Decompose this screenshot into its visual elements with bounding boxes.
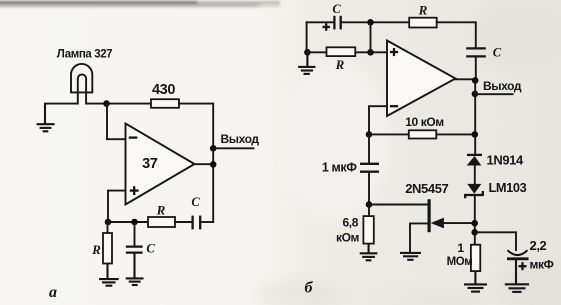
op-amp U1 minus marker [129, 136, 138, 138]
op-amp U2 minus marker [390, 105, 398, 107]
svg-text:мкФ: мкФ [530, 258, 554, 272]
ground GND-B4 (under 1 МОм) [464, 271, 487, 292]
wire: C to right vertical [200, 221, 213, 223]
op-amp U2 triangle [387, 41, 456, 117]
wire: Выход lead [213, 147, 253, 149]
wire: inverting input left and down [369, 106, 387, 134]
wire: node B down to R vertical [107, 222, 109, 233]
ground GND-B5 (under 2,2 мкФ) [505, 259, 529, 292]
resistor 1 МОм body [471, 245, 480, 271]
resistor R top body [409, 18, 437, 28]
wire: 1 мкФ down to node I [368, 172, 370, 205]
svg-text:Лампа 327: Лампа 327 [57, 48, 112, 60]
wire: top-left horizontal to lamp [45, 103, 78, 105]
node VYH-B [472, 91, 479, 98]
node C (junction dot bottom mid) [131, 219, 138, 226]
wire: output vertical down to diodes [474, 80, 476, 154]
diode VD1 1N914 [467, 155, 482, 166]
svg-text:C: C [493, 46, 502, 60]
capacitor C right plates [466, 48, 486, 56]
ground GND-A1 (lamp) [37, 104, 55, 132]
wire: R left to op-amp plus input [355, 51, 387, 53]
wire: node I down to 6,8 кОм [368, 205, 370, 217]
wire: node C down to C vertical [134, 222, 136, 246]
ground GND-B1 [298, 52, 315, 74]
resistor 10 кОм body [409, 130, 437, 138]
resistor 430 body [151, 99, 179, 108]
node I (gate junction) [366, 201, 373, 208]
svg-text:C: C [191, 195, 200, 209]
node D (top junction) [367, 19, 374, 26]
wire: node K right to 2,2 мкФ [475, 232, 516, 250]
wire: R top to right corner down [437, 22, 476, 48]
node F (junction under D) [367, 49, 374, 56]
transistor Q1 gate arrow [431, 218, 444, 229]
wire: lamp to node A [86, 103, 151, 105]
svg-text:R: R [335, 57, 345, 72]
svg-text:б: б [305, 280, 314, 297]
ground GND-A3 (under C) [126, 253, 144, 285]
svg-text:37: 37 [142, 156, 158, 172]
capacitor C vertical plates [126, 247, 143, 253]
wire: 430 to right vertical, corner down [179, 104, 213, 222]
svg-text:1N914: 1N914 [487, 152, 524, 167]
svg-text:R: R [418, 3, 428, 18]
ground GND-B3 (under transistor) [400, 253, 421, 260]
plus sign of 2,2 мкФ [519, 262, 527, 270]
wire: C to R top resistor [341, 21, 410, 23]
node OUT-B [472, 77, 479, 84]
node B (junction dot bottom left) [105, 219, 112, 226]
svg-text:C: C [332, 2, 341, 16]
svg-text:C: C [146, 242, 155, 256]
wire: node A down to inverting input [107, 104, 126, 140]
wire: node K down to 1 МОм [474, 232, 476, 244]
op-amp U1 triangle [126, 124, 195, 205]
capacitor 2,2 мкФ straight plate [507, 257, 529, 260]
op-amp U1 plus marker [130, 186, 139, 195]
wire: left vertical from top rail [306, 22, 308, 52]
op-amp U2 plus marker [390, 48, 398, 56]
svg-text:Выход: Выход [221, 132, 260, 146]
node A (junction dot) [103, 100, 110, 107]
svg-text:1: 1 [457, 241, 464, 255]
capacitor 2,2 мкФ curved plate [508, 250, 528, 255]
svg-text:МОм: МОм [447, 256, 473, 268]
wire: gate arrow to node J [444, 222, 475, 224]
resistor 6,8 кОм body [363, 216, 373, 244]
wire: LM103 down to node J [474, 195, 476, 232]
capacitor C horizontal plates [193, 216, 201, 230]
svg-text:6,8: 6,8 [343, 216, 359, 230]
svg-text:LM103: LM103 [489, 180, 527, 195]
svg-text:1 мкФ: 1 мкФ [322, 161, 357, 175]
wire: Выход lead (b) [475, 93, 513, 95]
wire: node G down to 1 мкФ [368, 134, 370, 163]
wire: op-amp output to node [456, 78, 476, 80]
lamp HL1 "Лампа 327" [71, 64, 92, 104]
wire: 10 кОм to output vertical [436, 133, 475, 135]
svg-text:R: R [91, 242, 101, 257]
wire: top rail left segment [307, 21, 335, 23]
plus sign of C [323, 23, 331, 30]
node G (feedback junction) [366, 131, 373, 138]
node H (10k right junction) [472, 131, 479, 138]
svg-text:кОм: кОм [336, 231, 360, 245]
wire: between diodes [474, 166, 476, 184]
transistor Q1 source wire to ground [410, 223, 428, 252]
resistor R horizontal body [148, 217, 175, 227]
svg-text:а: а [49, 284, 57, 301]
capacitor 1 мкФ plates [360, 164, 379, 172]
capacitor C polarized plates (top-left) [334, 16, 340, 30]
node K (junction below J) [471, 229, 478, 236]
wire: node D to node F [370, 22, 372, 52]
diode VD2 LM103 (zener) [465, 184, 483, 198]
node E (left junction) [304, 49, 311, 56]
svg-text:Выход: Выход [483, 79, 522, 93]
svg-text:2,2: 2,2 [530, 238, 547, 253]
wire: node G to 10 kOm [369, 133, 409, 135]
ground GND-A2 (under R) [99, 264, 119, 286]
wire: gate lead to transistor [369, 204, 428, 206]
wire: C right down to output node [475, 56, 477, 80]
ground GND-B2 (under 6,8 кОм) [360, 244, 378, 261]
node OUT-A (output junction) [210, 161, 217, 168]
svg-text:2N5457: 2N5457 [405, 181, 448, 196]
wire: R to C horizontal [175, 221, 193, 223]
resistor R vertical body [103, 233, 112, 264]
wire: noninverting input left and down [108, 191, 126, 222]
node VYH-A (Выход tap) [210, 145, 217, 152]
svg-text:10 кОм: 10 кОм [405, 115, 444, 129]
node J (drain junction) [471, 220, 478, 227]
svg-text:430: 430 [152, 82, 175, 98]
wire: node E to R left [307, 51, 327, 53]
wire: bottom rail left part [108, 221, 148, 223]
resistor R left body [327, 47, 356, 56]
wire: op-amp output to vertical [195, 163, 214, 165]
transistor Q1 2N5457 channel bar [428, 199, 431, 232]
svg-text:R: R [156, 203, 166, 218]
